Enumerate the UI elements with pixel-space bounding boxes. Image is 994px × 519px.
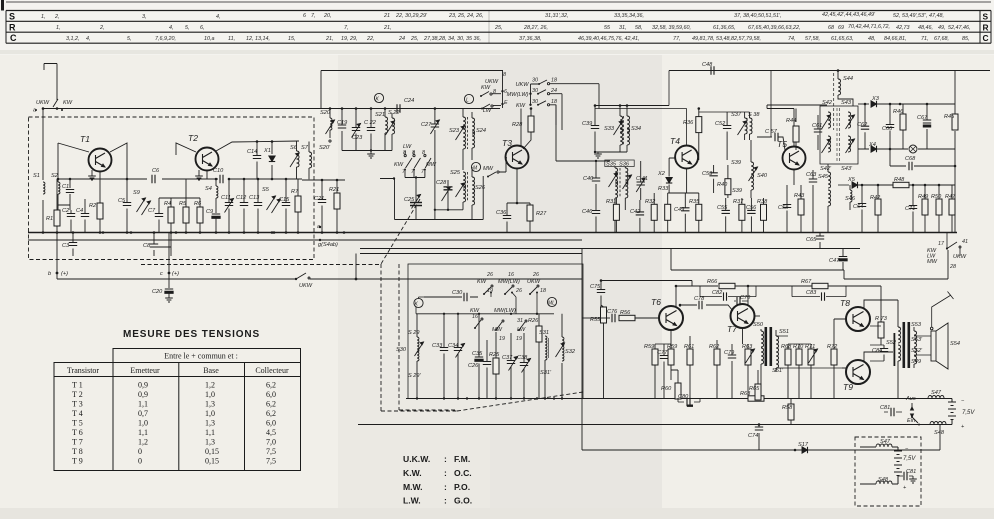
svg-text:R40: R40: [717, 182, 728, 188]
switch MW(LW) key: [505, 287, 512, 294]
svg-text:c: c: [160, 271, 163, 277]
svg-text:S52′: S52′: [911, 348, 923, 354]
svg-text:25,: 25,: [494, 25, 503, 31]
svg-text:7,6,9,20,: 7,6,9,20,: [155, 36, 176, 42]
svg-text:C49: C49: [674, 207, 684, 213]
wire det lower: [858, 148, 955, 150]
wire T2 emitter: [206, 171, 208, 180]
switch LW inner: [519, 322, 525, 330]
svg-text:UKW: UKW: [515, 82, 529, 88]
resistor R4: [170, 198, 172, 207]
capacitor C83: [792, 286, 846, 297]
svg-text:K.W.: K.W.: [403, 468, 422, 478]
switch MW mid: [424, 155, 426, 157]
svg-text:30: 30: [532, 78, 538, 84]
resistor R72: [833, 334, 835, 349]
ground T1: [91, 170, 93, 176]
svg-text:L: L: [466, 98, 469, 104]
svg-text:R6: R6: [194, 201, 202, 207]
svg-text:49,: 49,: [938, 25, 946, 31]
svg-text:S42′: S42′: [820, 166, 832, 172]
svg-text:1,2: 1,2: [205, 381, 215, 390]
svg-text:C15: C15: [279, 197, 290, 203]
svg-text:C4: C4: [76, 208, 83, 214]
aerial jack: [930, 327, 933, 330]
wire IF2 top tie: [699, 111, 750, 113]
wire driver secondary ties: [776, 336, 846, 368]
svg-text:C13: C13: [249, 195, 260, 201]
svg-text:C62: C62: [857, 122, 868, 128]
svg-text:S: S: [983, 12, 989, 22]
row S numbers: [41, 12, 944, 20]
svg-text:R72: R72: [827, 344, 838, 350]
resistor R67: [812, 283, 828, 288]
svg-text:Aus: Aus: [905, 396, 916, 402]
capacitor C33: [443, 314, 445, 399]
svg-text:6: 6: [504, 89, 507, 95]
diode X5: [838, 184, 849, 186]
capacitor C8: [154, 233, 171, 257]
svg-text:67,68,: 67,68,: [934, 36, 949, 42]
svg-text:LW: LW: [517, 327, 526, 333]
svg-text:UKW: UKW: [953, 254, 967, 260]
svg-text:P.O.: P.O.: [454, 482, 470, 492]
resistor R61: [670, 344, 672, 349]
svg-text:30: 30: [532, 99, 538, 105]
resistor R55: [601, 307, 607, 323]
svg-text:1,1: 1,1: [205, 428, 215, 437]
svg-text::: :: [444, 482, 447, 492]
svg-text:S2: S2: [51, 173, 59, 179]
resistor R38: [763, 198, 765, 204]
labels oscillator: [319, 79, 547, 217]
svg-text:C56: C56: [746, 205, 757, 211]
svg-text:S 29′: S 29′: [408, 373, 422, 379]
svg-text:R59: R59: [667, 344, 677, 350]
wire main input rail: [43, 108, 500, 110]
keyboard bus dots: [416, 397, 563, 399]
svg-text:a: a: [33, 108, 36, 114]
capacitor C27 variable: [431, 124, 439, 127]
svg-text:F.M.: F.M.: [454, 454, 470, 464]
svg-text:31: 31: [517, 318, 523, 324]
transistor T4: [675, 146, 698, 169]
wire right rail upper: [954, 71, 956, 115]
svg-text:23, 25, 24, 26,: 23, 25, 24, 26,: [448, 13, 483, 19]
capacitor C78: [680, 304, 697, 306]
svg-text:S53: S53: [911, 322, 922, 328]
svg-text:R63: R63: [742, 344, 753, 350]
wire C48 risers: [669, 71, 771, 138]
resistor R2: [97, 203, 103, 219]
transistor T7: [731, 304, 755, 328]
capacitor C77: [663, 344, 665, 399]
svg-text:S17: S17: [798, 442, 809, 448]
coil S35: [615, 168, 618, 184]
resistor R25: [495, 332, 497, 358]
svg-text:8: 8: [403, 150, 406, 156]
capacitor C7: [158, 198, 160, 214]
band switch bank right: [531, 84, 539, 105]
capacitor C2: [70, 210, 72, 233]
svg-text:S51: S51: [779, 329, 789, 335]
labels audio: [590, 279, 975, 448]
svg-text:C84: C84: [872, 348, 882, 354]
capacitor C81: [884, 411, 902, 413]
svg-text:28,27, 26,: 28,27, 26,: [523, 25, 548, 31]
transistor T6: [659, 306, 683, 330]
capacitor C14: [256, 141, 258, 179]
svg-text:C28: C28: [436, 180, 447, 186]
resistor R33: [667, 193, 669, 204]
svg-text:R50: R50: [931, 194, 942, 200]
svg-text:C20: C20: [152, 289, 163, 295]
capacitor C68: [890, 149, 955, 166]
svg-text:1,: 1,: [56, 25, 61, 31]
svg-text:16: 16: [508, 272, 514, 278]
svg-text:R7: R7: [291, 189, 299, 195]
osc band switch stack: [502, 71, 504, 109]
battery dashed box: [855, 437, 921, 506]
svg-text:S9: S9: [133, 190, 140, 196]
svg-text:52, 53,49′,53′′, 47,48,: 52, 53,49′,53′′, 47,48,: [893, 13, 944, 19]
svg-text:S45: S45: [818, 174, 829, 180]
svg-text:C24: C24: [404, 98, 414, 104]
wire C1/S2 bottom tie: [58, 205, 70, 210]
resistor R43: [800, 185, 802, 199]
wire T8 base: [834, 319, 846, 334]
svg-text:S6: S6: [290, 145, 298, 151]
wire inner rail: [416, 313, 554, 315]
tuning capacitor C25: [410, 203, 422, 206]
wire C47 line: [671, 249, 948, 280]
svg-text:26: 26: [515, 288, 522, 294]
svg-text:0,9: 0,9: [138, 390, 148, 399]
svg-text:MW(LW): MW(LW): [494, 308, 516, 314]
svg-text:68: 68: [828, 25, 834, 31]
svg-text:R55: R55: [590, 317, 601, 323]
lamp: [909, 145, 917, 153]
node a: [42, 107, 45, 110]
svg-text:S47: S47: [931, 390, 942, 396]
ground batt: [912, 476, 914, 479]
capacitor C66: [889, 104, 891, 149]
svg-text:R60: R60: [661, 386, 672, 392]
switch LW: [404, 155, 406, 157]
svg-text:12, 13,14,: 12, 13,14,: [246, 36, 270, 42]
switch MW inner: [496, 322, 502, 330]
capacitor C46: [595, 210, 597, 233]
svg-text:T2: T2: [188, 133, 198, 143]
svg-text:52,47,46,: 52,47,46,: [948, 25, 970, 31]
svg-text:8: 8: [422, 150, 425, 156]
wire audio left rail: [581, 249, 583, 451]
svg-text:T 6: T 6: [72, 428, 83, 437]
svg-text:C14: C14: [247, 149, 257, 155]
svg-text:19: 19: [499, 336, 505, 342]
svg-text:33,35,34,36,: 33,35,34,36,: [614, 13, 644, 19]
svg-text:E: E: [504, 100, 508, 106]
svg-text:R25: R25: [489, 352, 500, 358]
wire supply c riser: [57, 233, 169, 280]
svg-text:6,0: 6,0: [266, 419, 276, 428]
svg-text:C48: C48: [702, 62, 713, 68]
svg-text:19, 29,: 19, 29,: [341, 36, 358, 42]
svg-text:4,: 4,: [86, 36, 91, 42]
IF transformer S37 S38: [744, 112, 746, 118]
svg-text:S39: S39: [731, 160, 741, 166]
svg-text:C82: C82: [712, 290, 723, 296]
svg-text:R28: R28: [512, 122, 523, 128]
resistor R58: [790, 399, 792, 405]
diode X3: [871, 101, 877, 107]
resistor R27: [529, 203, 531, 205]
wire K riser: [416, 297, 424, 314]
svg-text:C58: C58: [778, 205, 789, 211]
wire bottom right riser: [939, 425, 941, 451]
AM section dashed bottom: [141, 264, 381, 266]
FM tuner dashed box: [29, 117, 315, 260]
switch UKW row: [539, 80, 547, 84]
capacitor C75: [600, 281, 602, 314]
coil S48 spare: [876, 481, 892, 484]
svg-text:6,2: 6,2: [266, 400, 276, 409]
wire det top: [858, 103, 869, 105]
coil S25: [463, 172, 466, 188]
capacitor C64: [861, 185, 863, 233]
wire T4 emitter: [668, 169, 699, 194]
capacitor C76: [597, 317, 610, 319]
svg-text:S35: S35: [606, 162, 617, 168]
svg-text:S31: S31: [539, 330, 549, 336]
svg-text:S46: S46: [845, 196, 856, 202]
marker K2: [414, 298, 423, 307]
svg-text:32,58, 39,59,60,: 32,58, 39,59,60,: [652, 25, 691, 31]
svg-text:S21: S21: [375, 112, 385, 118]
svg-text:7,5V: 7,5V: [962, 410, 975, 416]
wire T1 emitter: [99, 172, 101, 204]
svg-text:3,1,2,: 3,1,2,: [66, 36, 80, 42]
wire T7 emitter: [742, 328, 744, 344]
capacitor C67 electrolytic: [926, 104, 928, 149]
coil S47 spare: [876, 444, 892, 447]
svg-text:26: 26: [486, 272, 493, 278]
capacitor C53: [713, 165, 715, 193]
svg-text:C11: C11: [221, 195, 231, 201]
labels IF strip: [582, 62, 822, 215]
wire T9 collector: [864, 352, 893, 361]
svg-text:R62: R62: [709, 344, 720, 350]
wire T6 collector: [675, 286, 677, 308]
svg-text:C65: C65: [806, 237, 817, 243]
svg-text:C47: C47: [829, 258, 840, 264]
svg-text:61,65,63,: 61,65,63,: [831, 36, 853, 42]
svg-text:S32: S32: [565, 349, 576, 355]
wire batt box top: [860, 446, 898, 448]
svg-text:55: 55: [604, 25, 611, 31]
capacitor C48: [711, 66, 714, 74]
svg-text:R45: R45: [944, 114, 955, 120]
svg-text:7,: 7,: [311, 13, 316, 19]
svg-text:R70: R70: [793, 344, 804, 350]
svg-text:6,0: 6,0: [266, 390, 276, 399]
svg-text:S36: S36: [619, 162, 630, 168]
coil S21: [384, 109, 386, 118]
capacitor C57: [757, 136, 772, 138]
svg-text:41: 41: [962, 239, 968, 245]
svg-text:Entre le + commun et :: Entre le + commun et :: [164, 352, 238, 361]
diode X1: [271, 141, 273, 179]
wire bus second: [28, 239, 582, 241]
svg-text:S51′: S51′: [772, 368, 784, 374]
svg-text:R65: R65: [749, 386, 760, 392]
svg-text:1,0: 1,0: [138, 419, 148, 428]
capacitor C41 variable: [640, 161, 642, 200]
capacitor C4: [84, 199, 86, 233]
switch UKW supply: [296, 273, 306, 279]
capacitor C70: [734, 300, 748, 302]
coil S22: [391, 113, 393, 118]
wire audio lower bus: [358, 424, 952, 426]
transformer S6 S7: [296, 142, 298, 152]
svg-text:S5: S5: [262, 187, 270, 193]
capacitor C3: [72, 233, 74, 257]
svg-text:MW(LW): MW(LW): [507, 92, 529, 98]
wire R4-R6 top tie: [159, 179, 200, 198]
svg-text:S52: S52: [886, 340, 897, 346]
svg-text:S43: S43: [841, 100, 852, 106]
svg-text:C42: C42: [630, 209, 641, 215]
wire C25 riser: [415, 178, 417, 202]
svg-text::: :: [444, 468, 447, 478]
svg-text:C68: C68: [905, 156, 916, 162]
svg-text:19: 19: [516, 336, 522, 342]
coil S2: [57, 143, 59, 182]
labels detector: [806, 76, 967, 265]
resistor R46: [902, 104, 904, 114]
svg-text:T8: T8: [840, 298, 850, 308]
svg-text:2,: 2,: [54, 14, 60, 20]
capacitor C12: [243, 179, 245, 233]
svg-text:7,: 7,: [344, 25, 349, 31]
svg-text:C21: C21: [314, 196, 324, 202]
svg-text:C70: C70: [740, 295, 751, 301]
resistor R59: [654, 344, 656, 349]
capacitor C52: [726, 112, 728, 160]
wire bus third: [360, 248, 860, 250]
svg-text:S 29: S 29: [408, 330, 420, 336]
resistor R32: [653, 193, 655, 204]
wire T4 collector: [595, 109, 687, 146]
parts index table top: [3, 0, 992, 43]
row C numbers: [66, 36, 970, 42]
bus dots: [42, 226, 346, 241]
svg-text:R56: R56: [620, 310, 631, 316]
svg-text:C76: C76: [607, 309, 618, 315]
svg-text:C52: C52: [715, 121, 726, 127]
svg-text:R27: R27: [536, 211, 547, 217]
svg-text:R58: R58: [782, 405, 793, 411]
wire C30 feed: [424, 296, 478, 298]
svg-text:R47: R47: [945, 194, 956, 200]
svg-text:24: 24: [398, 36, 405, 42]
wire right rail lower: [954, 131, 956, 233]
capacitor C1: [69, 179, 71, 205]
wire K bottom tie: [342, 150, 392, 152]
diode X4: [871, 146, 877, 152]
svg-text:C7: C7: [148, 208, 156, 214]
svg-text:C37: C37: [502, 355, 513, 361]
resistor R48: [893, 182, 909, 187]
svg-text:UKW: UKW: [36, 100, 50, 106]
capacitor C36: [506, 203, 508, 233]
wire T1 collector: [110, 143, 127, 179]
wire T5 emitter: [793, 170, 795, 186]
switch osc LW: [482, 104, 490, 109]
svg-text:70,42,44,71,6,72,: 70,42,44,71,6,72,: [848, 24, 890, 30]
svg-text:5,: 5,: [127, 36, 132, 42]
svg-text:UKW: UKW: [299, 283, 313, 289]
svg-text:R59: R59: [644, 344, 654, 350]
svg-text:R32: R32: [645, 199, 656, 205]
svg-text:S 22: S 22: [388, 110, 400, 116]
marker K: [374, 93, 383, 102]
winding S52 aux: [894, 333, 896, 366]
svg-text:19: 19: [487, 288, 493, 294]
svg-text:S1: S1: [33, 173, 40, 179]
svg-text:Transistor: Transistor: [67, 366, 99, 375]
svg-text:C30: C30: [452, 290, 463, 296]
svg-text:28: 28: [949, 264, 956, 270]
capacitor C10: [220, 175, 223, 183]
svg-text:C83: C83: [806, 290, 817, 296]
switch KW inner: [475, 320, 481, 328]
svg-text:R67: R67: [801, 279, 812, 285]
coil S42b: [828, 136, 831, 152]
wire T8 collector: [864, 300, 898, 309]
svg-text:3,: 3,: [142, 14, 147, 20]
svg-text:R21: R21: [329, 187, 339, 193]
capacitor C79: [731, 344, 733, 399]
svg-text:T 8: T 8: [72, 447, 83, 456]
svg-text:C3: C3: [62, 243, 70, 249]
capacitor C84: [883, 345, 885, 361]
svg-text:21,: 21,: [383, 25, 392, 31]
svg-text:R42: R42: [870, 195, 881, 201]
wire T1 base diagonal: [58, 143, 89, 152]
resistor R68: [787, 344, 789, 349]
svg-text:24: 24: [550, 88, 557, 94]
svg-text:S53′: S53′: [911, 337, 923, 343]
capacitor C47: [842, 249, 844, 271]
svg-text:Emetteur: Emetteur: [130, 366, 160, 375]
svg-text:T7: T7: [727, 324, 737, 334]
svg-text:31,: 31,: [619, 25, 627, 31]
svg-text:58,: 58,: [635, 25, 643, 31]
svg-text:Base: Base: [203, 366, 219, 375]
resistor R6: [199, 198, 201, 207]
wire bus main: [28, 232, 957, 234]
resistor R65: [757, 370, 759, 384]
svg-text:R35: R35: [689, 199, 700, 205]
svg-text:a: a: [317, 224, 320, 230]
svg-text:21,: 21,: [325, 36, 334, 42]
svg-text:21: 21: [383, 13, 390, 19]
coil S24: [471, 112, 473, 118]
svg-text:4,: 4,: [216, 14, 221, 20]
svg-text:1,0: 1,0: [205, 390, 215, 399]
switch MW osc: [488, 172, 496, 177]
